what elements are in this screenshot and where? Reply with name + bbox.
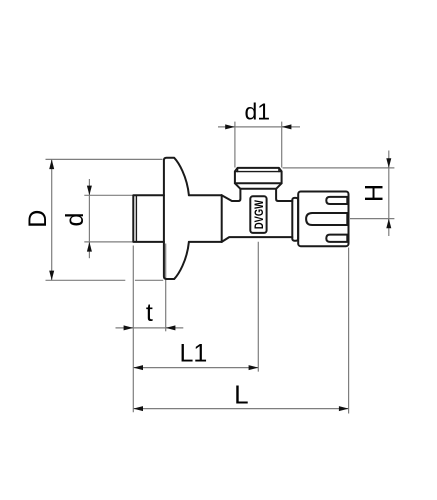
- dimension H extension lines: [283, 167, 395, 169]
- dimension D line: [51, 159, 53, 280]
- dimension L1 extension line: [257, 242, 259, 372]
- dimension D extension lines: [46, 158, 163, 160]
- arrow d top: [87, 186, 92, 196]
- dimension L extension line: [348, 248, 350, 414]
- body shoulder top: [222, 189, 241, 201]
- body bottom edge: [222, 237, 293, 242]
- arrow d1 left: [225, 124, 235, 129]
- top cap: [235, 168, 282, 183]
- svg-text:L1: L1: [179, 339, 207, 367]
- svg-text:DVGW: DVGW: [252, 200, 266, 230]
- dimension L1 line: [133, 367, 258, 369]
- dimension d line: [88, 179, 90, 258]
- arrow t left: [124, 325, 134, 330]
- arrow L1 left: [133, 365, 143, 370]
- dimension t extension lines: [132, 246, 134, 413]
- wall rosette flange: [164, 158, 189, 279]
- svg-text:H: H: [361, 184, 389, 202]
- arrow d1 right: [282, 124, 292, 129]
- dimension d1 line: [218, 126, 300, 128]
- dimension L line: [133, 408, 348, 410]
- knob groove top: [326, 197, 347, 204]
- arrowheads: [49, 124, 391, 411]
- knob groove bottom: [326, 235, 347, 242]
- svg-text:t: t: [146, 299, 153, 327]
- dimension d1 extension lines: [234, 122, 236, 168]
- dimension H line: [388, 151, 390, 237]
- inlet tube: [189, 194, 222, 196]
- DVGW label plate: [250, 196, 266, 233]
- cap skirt: [235, 183, 282, 189]
- arrow H bottom: [386, 219, 391, 229]
- collar: [292, 198, 298, 241]
- arrow L left: [133, 406, 143, 411]
- dimension t line: [116, 327, 184, 329]
- threaded inlet spigot: [133, 195, 164, 242]
- valve outline: [133, 158, 348, 279]
- svg-text:d: d: [61, 213, 89, 227]
- arrow d bottom: [87, 242, 92, 252]
- svg-text:L: L: [234, 380, 248, 410]
- arrow t right: [166, 325, 176, 330]
- svg-text:D: D: [24, 210, 52, 228]
- stem right side: [276, 189, 292, 201]
- arrow L right: [339, 406, 349, 411]
- thread chamfer line: [135, 196, 137, 242]
- arrow D bottom: [49, 271, 54, 281]
- dimension d extension lines: [84, 194, 133, 196]
- arrow D top: [49, 159, 54, 169]
- arrow H top: [386, 158, 391, 168]
- arrow L1 right: [249, 365, 259, 370]
- knob groove middle: [306, 213, 347, 225]
- knob: [298, 192, 348, 247]
- svg-text:d1: d1: [245, 99, 271, 125]
